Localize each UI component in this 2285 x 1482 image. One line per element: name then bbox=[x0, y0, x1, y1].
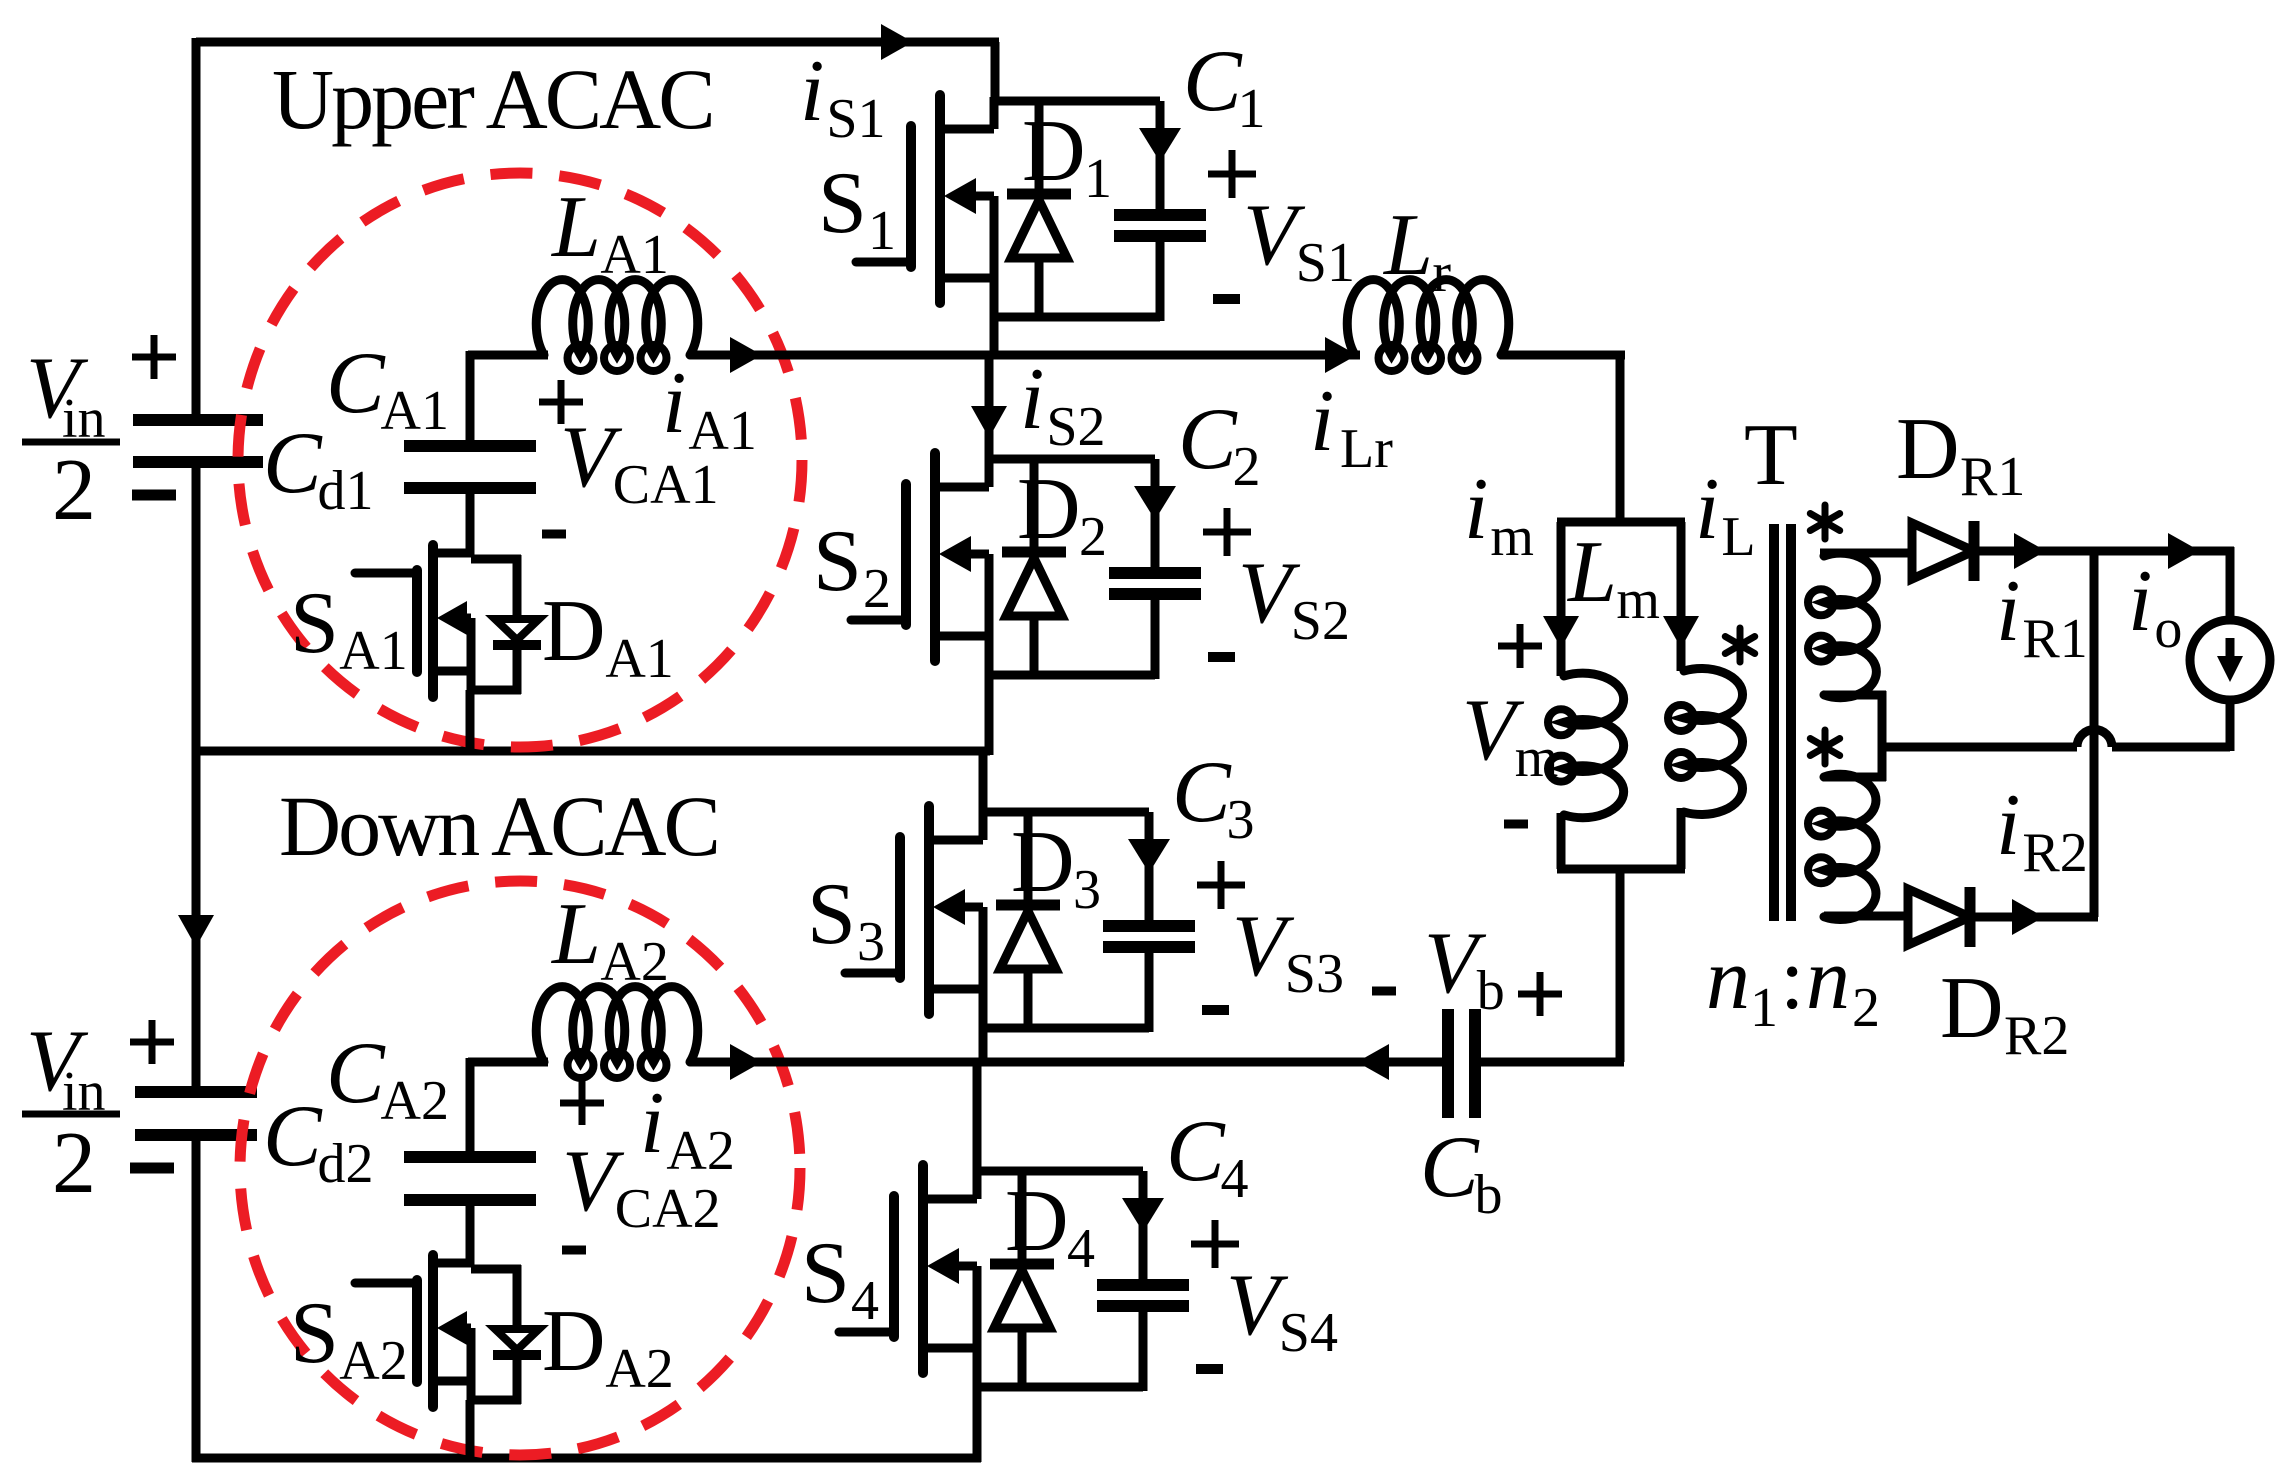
wire C4 box top tie bbox=[977, 1167, 1143, 1176]
wire C4 box bottom tie bbox=[977, 1383, 1143, 1392]
svg-text:A1: A1 bbox=[605, 628, 673, 690]
label + of V_S1 bbox=[1208, 150, 1256, 198]
wire Cb to corner bbox=[1479, 1058, 1624, 1067]
svg-text:R2: R2 bbox=[2004, 1005, 2069, 1067]
svg-text:r: r bbox=[1432, 242, 1451, 304]
source stub SA2 bbox=[433, 1377, 471, 1386]
wire cathode bus bbox=[2090, 551, 2099, 917]
svg-text:S1: S1 bbox=[1296, 232, 1355, 294]
polarity star secondary lower bbox=[1810, 730, 1839, 764]
label - of VCA1 bbox=[542, 530, 566, 539]
wire DR2 to bus bbox=[1970, 913, 2098, 922]
wire C1 box bottom tie bbox=[994, 313, 1160, 322]
secondary winding upper bbox=[1808, 553, 1912, 698]
mosfet S3 drain feed bbox=[979, 808, 988, 840]
svg-text:2: 2 bbox=[1079, 506, 1107, 568]
label - of V_S1 bbox=[1213, 294, 1240, 304]
label D2 bbox=[1017, 461, 1107, 568]
label DA1 bbox=[542, 583, 674, 690]
wire Lr to corner bbox=[1500, 351, 1625, 360]
label Vm bbox=[1462, 682, 1558, 789]
svg-text:m: m bbox=[1515, 727, 1559, 789]
label D1 bbox=[1022, 103, 1112, 210]
svg-text:R1: R1 bbox=[2022, 608, 2087, 670]
svg-text:T: T bbox=[1744, 407, 1798, 504]
label Cd1 bbox=[263, 415, 374, 522]
body arrow SA1 bbox=[437, 601, 471, 635]
label LA1 bbox=[550, 179, 669, 286]
wire gate lead SA2 bbox=[355, 1279, 417, 1288]
label - of upper Vin/2 bbox=[132, 490, 176, 501]
capacitor C1 bbox=[1114, 101, 1206, 321]
wire output bottom to center tap bbox=[1882, 730, 2230, 748]
channel bar SA1 bbox=[428, 545, 438, 697]
svg-text:D: D bbox=[1940, 960, 2004, 1057]
svg-text:i: i bbox=[1020, 351, 1044, 448]
label + of V_S2 bbox=[1203, 508, 1251, 556]
mosfet S4 channel bar bbox=[918, 1165, 928, 1373]
mosfet S1 source stub bbox=[940, 274, 994, 283]
label - of Vm bbox=[1504, 820, 1528, 829]
wire bottom tie down to Cb wire bbox=[1616, 869, 1625, 1062]
mosfet S4 drain feed bbox=[973, 1167, 982, 1199]
svg-text:L: L bbox=[1382, 197, 1433, 294]
drain stub SA2 bbox=[433, 1259, 471, 1268]
svg-text:L: L bbox=[550, 886, 601, 983]
mosfet S3 source bar bbox=[979, 907, 988, 1032]
label S3 bbox=[807, 866, 885, 973]
svg-text:D: D bbox=[1017, 461, 1081, 558]
svg-text:D: D bbox=[542, 1293, 606, 1390]
label i_R1 bbox=[1996, 563, 2088, 670]
wire S1 source to mid node bbox=[990, 317, 999, 359]
inductor LA2 bbox=[536, 987, 698, 1078]
gate bar SA1 bbox=[412, 570, 422, 672]
mosfet S2 gate bar bbox=[901, 484, 911, 625]
mosfet S2 channel bar bbox=[930, 453, 940, 661]
current arrow i_R1 bbox=[2014, 533, 2046, 569]
label VCA1 bbox=[560, 409, 719, 516]
label i_Lr bbox=[1310, 373, 1393, 480]
svg-text:S: S bbox=[807, 866, 856, 963]
current arrow on left rail bbox=[178, 915, 214, 947]
label i_S2 bbox=[1020, 351, 1106, 458]
label SA1 bbox=[290, 575, 408, 682]
svg-text:i: i bbox=[800, 43, 824, 140]
mosfet S4 drain stub bbox=[923, 1195, 977, 1204]
wire corner down to Lm bbox=[1616, 351, 1625, 526]
svg-text::: : bbox=[1780, 931, 1804, 1028]
label CA2 bbox=[326, 1025, 449, 1132]
dashed highlight circle (down ACAC) bbox=[240, 881, 800, 1455]
svg-text:1: 1 bbox=[1238, 78, 1266, 140]
svg-text:A1: A1 bbox=[688, 400, 756, 462]
label + of upper Vin/2 bbox=[132, 335, 176, 379]
current arrow i_m branch bbox=[1543, 616, 1579, 648]
svg-text:A2: A2 bbox=[339, 1330, 407, 1392]
mosfet S3 gate bar bbox=[895, 837, 905, 978]
label Vb bbox=[1424, 915, 1505, 1022]
current source i_o bbox=[2190, 620, 2270, 700]
polarity star secondary upper bbox=[1810, 505, 1839, 539]
label Cb bbox=[1420, 1119, 1503, 1226]
svg-text:L: L bbox=[1721, 506, 1755, 568]
svg-text:2: 2 bbox=[1233, 436, 1261, 498]
mosfet S3 gate lead bbox=[845, 969, 900, 978]
svg-text:A2: A2 bbox=[666, 1120, 734, 1182]
mosfet S2 gate lead bbox=[851, 616, 906, 625]
current arrow i_A2 bbox=[730, 1044, 762, 1080]
current arrow into C4 bbox=[1122, 1198, 1164, 1232]
mosfet S3 drain stub bbox=[929, 836, 983, 845]
mosfet S2 source bar bbox=[985, 554, 994, 679]
wire top rail bbox=[196, 38, 999, 46]
wire mid node to S2 drain bbox=[985, 355, 994, 463]
label n1:n2 bbox=[1706, 931, 1880, 1039]
wire SA2 source to bottom rail bbox=[466, 1400, 475, 1462]
svg-text:A2: A2 bbox=[381, 1070, 449, 1132]
wire C3 box top tie bbox=[983, 808, 1149, 817]
svg-text:C: C bbox=[1172, 744, 1232, 841]
svg-text:S: S bbox=[818, 155, 867, 252]
label i_S1 bbox=[800, 43, 886, 150]
current arrow i_S1 on top rail bbox=[881, 24, 913, 60]
label C2 bbox=[1178, 391, 1261, 498]
drain stub SA1 bbox=[433, 549, 471, 558]
svg-text:C: C bbox=[1166, 1103, 1226, 1200]
transformer primary winding bbox=[1668, 669, 1743, 815]
svg-text:A2: A2 bbox=[600, 931, 668, 993]
current arrow i_S2 bbox=[971, 406, 1007, 438]
svg-text:C: C bbox=[1178, 391, 1238, 488]
antiparallel diode D3 bbox=[996, 812, 1060, 1032]
wire gate lead SA1 bbox=[355, 569, 417, 578]
svg-text:S2: S2 bbox=[1046, 396, 1105, 458]
mosfet S1 source bar bbox=[990, 196, 999, 321]
mosfet S4 source stub bbox=[923, 1344, 977, 1353]
svg-text:i: i bbox=[662, 355, 686, 452]
svg-text:i: i bbox=[640, 1075, 664, 1172]
svg-text:D: D bbox=[1011, 814, 1075, 911]
svg-text:i: i bbox=[1996, 563, 2020, 660]
svg-text:C: C bbox=[326, 1025, 386, 1122]
label + of VCA1 bbox=[539, 380, 583, 424]
mosfet S1 channel bar bbox=[935, 95, 945, 303]
wire output right side upper bbox=[2226, 547, 2235, 623]
label i_o bbox=[2128, 553, 2182, 660]
label V_S1 bbox=[1243, 187, 1355, 294]
label Lm bbox=[1566, 524, 1660, 631]
svg-text:D: D bbox=[1896, 401, 1960, 498]
transformer core bbox=[1774, 524, 1791, 921]
label + of Vb bbox=[1518, 972, 1562, 1016]
diode bottom tie SA1 bbox=[471, 686, 521, 695]
capacitor C3 bbox=[1103, 812, 1195, 1032]
label Cd2 bbox=[263, 1088, 374, 1195]
svg-text:CA1: CA1 bbox=[613, 454, 719, 516]
wire lower node to S4 drain bbox=[973, 1062, 982, 1175]
label i_A1 bbox=[662, 355, 757, 462]
label - of V_S4 bbox=[1196, 1364, 1223, 1374]
label Vin/2 fraction (lower) bbox=[22, 1013, 120, 1212]
wire S3 source to lower node bbox=[979, 1028, 988, 1066]
capacitor Cd2 on left rail bbox=[135, 1092, 257, 1135]
svg-text:o: o bbox=[2154, 598, 2182, 660]
mosfet S2 drain feed bbox=[985, 455, 994, 487]
svg-text:b: b bbox=[1475, 1164, 1503, 1226]
mosfet S2 body arrow bbox=[939, 536, 989, 572]
svg-text:C: C bbox=[263, 1088, 323, 1185]
svg-text:2: 2 bbox=[52, 442, 96, 539]
label LA2 bbox=[550, 886, 669, 993]
wire DR1 to node bbox=[1974, 547, 2234, 556]
svg-text:S: S bbox=[801, 1225, 850, 1322]
diode top tie SA2 bbox=[471, 1265, 521, 1274]
wire mid rail bbox=[192, 747, 990, 756]
wire output right side lower bbox=[2226, 697, 2235, 751]
wire S2 source to mid rail bbox=[985, 675, 994, 755]
mosfet S4 body arrow bbox=[927, 1248, 977, 1284]
label C3 bbox=[1172, 744, 1255, 851]
label V_S3 bbox=[1232, 898, 1344, 1005]
wire transformer bottom tie bbox=[1557, 865, 1685, 874]
svg-text:L: L bbox=[1566, 524, 1617, 621]
source bar SA2 bbox=[467, 1328, 476, 1400]
mosfet S4 gate lead bbox=[839, 1328, 894, 1337]
svg-text:S3: S3 bbox=[1285, 943, 1344, 1005]
svg-text:A2: A2 bbox=[605, 1338, 673, 1400]
svg-text:R2: R2 bbox=[2022, 822, 2087, 884]
label VCA2 bbox=[562, 1133, 721, 1240]
label CA1 bbox=[326, 335, 449, 442]
label + of V_S3 bbox=[1197, 861, 1245, 909]
wire CA2 to SA2 drain bbox=[466, 1200, 475, 1267]
svg-text:S2: S2 bbox=[1291, 590, 1350, 652]
svg-text:S: S bbox=[813, 513, 862, 610]
svg-text:Down ACAC: Down ACAC bbox=[279, 778, 718, 874]
mosfet S1 drain feed bbox=[990, 97, 999, 129]
capacitor C2 bbox=[1109, 459, 1201, 679]
wire C1 box top tie bbox=[994, 97, 1160, 106]
mosfet S1 body arrow bbox=[944, 178, 994, 214]
antiparallel diode DA2 bbox=[493, 1265, 541, 1404]
label Vin/2 fraction (upper) bbox=[22, 340, 120, 539]
capacitor C4 bbox=[1097, 1171, 1189, 1391]
label + of VCA2 bbox=[560, 1081, 604, 1125]
inductor Lr bbox=[1347, 280, 1509, 371]
label DA2 bbox=[542, 1293, 674, 1400]
svg-text:C: C bbox=[1183, 33, 1243, 130]
source stub SA1 bbox=[433, 667, 471, 676]
svg-text:n: n bbox=[1706, 931, 1750, 1028]
wire CA2 riser bbox=[466, 1058, 475, 1157]
svg-text:A1: A1 bbox=[600, 224, 668, 286]
label S1 bbox=[818, 155, 896, 262]
wire C3 box bottom tie bbox=[983, 1024, 1149, 1033]
svg-text:4: 4 bbox=[1067, 1218, 1095, 1280]
label i_A2 bbox=[640, 1075, 735, 1182]
antiparallel diode DA1 bbox=[493, 555, 541, 694]
wire SA1 source to mid rail bbox=[466, 690, 475, 755]
wire primary drop bbox=[1677, 522, 1686, 671]
wire left rail middle segment bbox=[192, 467, 201, 1087]
current arrow into C3 bbox=[1128, 839, 1170, 873]
wire C2 box top tie bbox=[989, 455, 1155, 464]
label - of VCA2 bbox=[562, 1246, 586, 1255]
label - of Vb bbox=[1372, 987, 1396, 996]
svg-text:R1: R1 bbox=[1960, 446, 2025, 508]
svg-text:i: i bbox=[1310, 373, 1334, 470]
svg-text:1: 1 bbox=[1750, 977, 1778, 1039]
svg-text:i: i bbox=[1695, 461, 1719, 558]
svg-text:i: i bbox=[1464, 461, 1488, 558]
label i_m bbox=[1464, 461, 1534, 568]
secondary winding lower bbox=[1808, 774, 1876, 919]
label DR2 bbox=[1940, 960, 2069, 1067]
svg-text:i: i bbox=[2128, 553, 2152, 650]
inductor LA1 bbox=[536, 280, 698, 371]
wire S4 source to bottom rail bbox=[973, 1387, 982, 1462]
mosfet S3 body arrow bbox=[933, 889, 983, 925]
wire Lm left drop bbox=[1557, 522, 1566, 676]
svg-text:C: C bbox=[326, 335, 386, 432]
antiparallel diode D4 bbox=[990, 1171, 1054, 1391]
label T bbox=[1744, 407, 1798, 504]
svg-text:1: 1 bbox=[1084, 148, 1112, 210]
label - of V_S2 bbox=[1208, 652, 1235, 662]
rectifier diode DR1 bbox=[1912, 521, 1974, 581]
svg-text:2: 2 bbox=[863, 558, 891, 620]
antiparallel diode D1 bbox=[1007, 101, 1071, 321]
mosfet S4 gate bar bbox=[889, 1196, 899, 1337]
svg-text:n: n bbox=[1806, 931, 1850, 1028]
antiparallel diode D2 bbox=[1002, 459, 1066, 679]
svg-text:4: 4 bbox=[851, 1270, 879, 1332]
wire CA1 to SA1 drain bbox=[466, 488, 475, 557]
svg-text:D: D bbox=[1022, 103, 1086, 200]
label + of lower Vin/2 bbox=[130, 1020, 174, 1064]
svg-text:C: C bbox=[1420, 1119, 1480, 1216]
wire C2 box bottom tie bbox=[989, 671, 1155, 680]
gate bar SA2 bbox=[412, 1280, 422, 1382]
capacitor Cd1 on left rail bbox=[133, 420, 263, 462]
label Upper ACAC bbox=[272, 51, 713, 147]
current arrow i_Lr bbox=[1325, 337, 1357, 373]
current arrow i_L branch bbox=[1663, 616, 1699, 648]
wire lower node horizontal (S3-S4 to LA2) bbox=[468, 1058, 548, 1067]
svg-text:3: 3 bbox=[857, 911, 885, 973]
secondary lower exit wire bbox=[1824, 912, 1908, 921]
capacitor Cb bbox=[1448, 1009, 1475, 1118]
diode top tie SA1 bbox=[471, 555, 521, 564]
channel bar SA2 bbox=[428, 1255, 438, 1407]
svg-text:m: m bbox=[1616, 569, 1660, 631]
rectifier diode DR2 bbox=[1908, 887, 1970, 947]
label + of V_S4 bbox=[1191, 1220, 1239, 1268]
svg-text:S: S bbox=[290, 575, 339, 672]
label C1 bbox=[1183, 33, 1266, 140]
mosfet S4 source bar bbox=[973, 1266, 982, 1391]
svg-text:d2: d2 bbox=[318, 1133, 374, 1195]
current arrow i_A1 bbox=[730, 337, 762, 373]
wire Lm bottom hook bbox=[1557, 813, 1566, 869]
capacitor CA2 bbox=[404, 1157, 536, 1200]
svg-text:d1: d1 bbox=[318, 460, 374, 522]
label SA2 bbox=[290, 1285, 408, 1392]
mosfet S1 gate lead bbox=[856, 258, 911, 267]
svg-text:L: L bbox=[550, 179, 601, 276]
label V_S4 bbox=[1226, 1257, 1338, 1364]
current arrow into C1 bbox=[1139, 128, 1181, 162]
body arrow SA2 bbox=[437, 1311, 471, 1345]
wire primary bottom hook bbox=[1677, 808, 1686, 869]
svg-text:m: m bbox=[1490, 506, 1534, 568]
label i_R2 bbox=[1996, 777, 2088, 884]
label S2 bbox=[813, 513, 891, 620]
svg-text:S: S bbox=[290, 1285, 339, 1382]
svg-text:S4: S4 bbox=[1279, 1302, 1338, 1364]
mosfet S3 source stub bbox=[929, 985, 983, 994]
label Lr bbox=[1382, 197, 1451, 304]
label DR1 bbox=[1896, 401, 2025, 508]
label V_S2 bbox=[1238, 545, 1350, 652]
wire S1 drain to top rail bbox=[991, 42, 1000, 105]
svg-text:A1: A1 bbox=[381, 380, 449, 442]
current arrow i_R2 wire bbox=[2012, 899, 2044, 935]
mosfet S2 drain stub bbox=[935, 483, 989, 492]
label Down ACAC bbox=[279, 778, 718, 874]
current arrow into Cb bbox=[1357, 1044, 1389, 1080]
wire Lm top tie bbox=[1557, 518, 1685, 527]
svg-text:2: 2 bbox=[1852, 977, 1880, 1039]
svg-text:i: i bbox=[1996, 777, 2020, 874]
svg-text:2: 2 bbox=[52, 1115, 96, 1212]
label + of Vm bbox=[1498, 624, 1542, 668]
secondary lower entry bbox=[1824, 747, 1886, 781]
secondary upper exit bbox=[1824, 691, 1886, 747]
current arrow i_o wire bbox=[2168, 533, 2200, 569]
label S4 bbox=[801, 1225, 879, 1332]
wire left rail upper segment bbox=[192, 38, 201, 415]
wire lower node to Cb bbox=[690, 1058, 1444, 1067]
mosfet S3 channel bar bbox=[924, 806, 934, 1014]
diode bottom tie SA2 bbox=[471, 1396, 521, 1405]
wire mid rail to S3 drain bbox=[979, 751, 988, 816]
svg-text:b: b bbox=[1477, 960, 1505, 1022]
source bar SA1 bbox=[467, 618, 476, 690]
wire CA1 riser bbox=[466, 351, 475, 446]
svg-text:D: D bbox=[1005, 1173, 1069, 1270]
label - of V_S3 bbox=[1202, 1005, 1229, 1015]
mosfet S1 gate bar bbox=[906, 126, 916, 267]
svg-text:D: D bbox=[542, 583, 606, 680]
mosfet S1 drain stub bbox=[940, 125, 994, 134]
svg-text:4: 4 bbox=[1221, 1148, 1249, 1210]
svg-text:1: 1 bbox=[868, 200, 896, 262]
label - of lower Vin/2 bbox=[130, 1163, 174, 1174]
capacitor CA1 bbox=[404, 446, 536, 488]
wire mid node horizontal (S1-S2 to LA1) bbox=[468, 351, 548, 360]
svg-text:Lr: Lr bbox=[1340, 418, 1393, 480]
wire left rail lower segment bbox=[192, 1140, 201, 1462]
wire mid node to Lr bbox=[690, 351, 1360, 360]
label C4 bbox=[1166, 1103, 1249, 1210]
polarity star primary bbox=[1725, 628, 1754, 662]
svg-text:Upper ACAC: Upper ACAC bbox=[272, 51, 713, 147]
svg-text:C: C bbox=[263, 415, 323, 512]
svg-text:A1: A1 bbox=[339, 620, 407, 682]
dashed highlight circle (upper ACAC) bbox=[238, 173, 802, 747]
